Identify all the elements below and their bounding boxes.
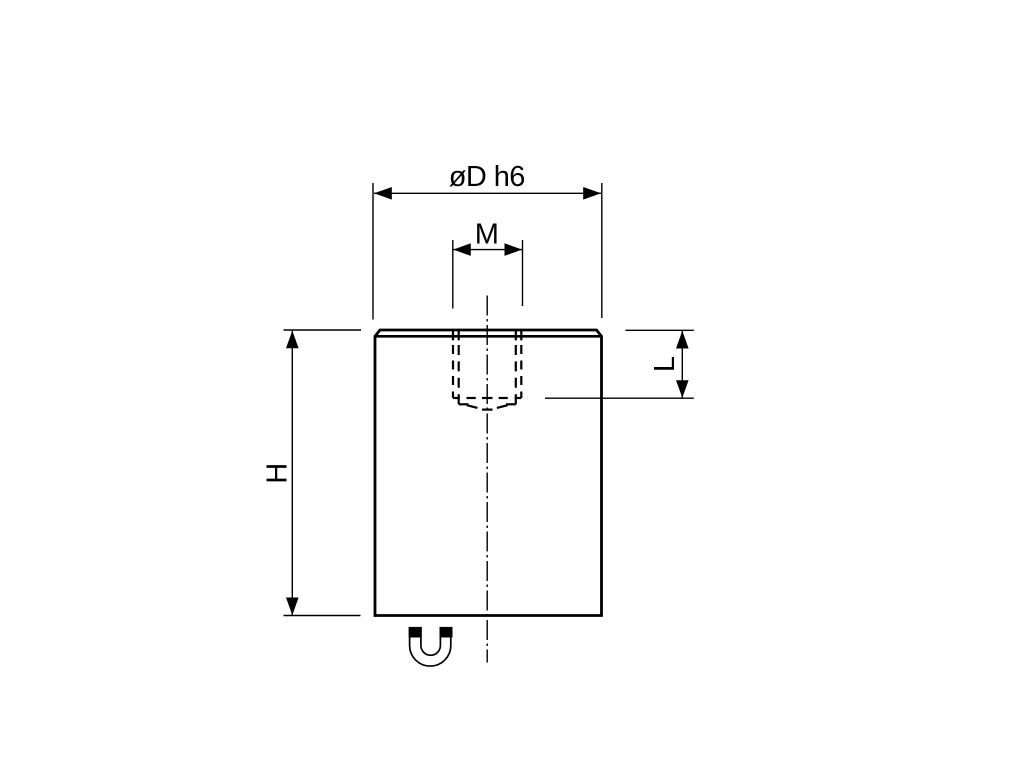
drill minor diameter hidden lines (dashed) [459,345,516,404]
vertical center line (dash-dot) [486,296,488,663]
svg-text:L: L [649,356,681,372]
dimension oD h6: left extension line [372,183,374,320]
dimension H: dimension line [291,331,293,616]
dimension H: bottom extension line [284,615,361,617]
svg-text:øD h6: øD h6 [449,161,525,193]
dimension oD h6: dimension line [374,192,601,194]
dimension H: top arrowhead [286,331,299,349]
dimension L: leader line from thread bottom [545,397,694,399]
horseshoe magnet symbol: left pole (filled) [409,627,422,638]
horseshoe magnet symbol: inner outline [421,627,441,655]
dimension L: bottom arrowhead [676,380,689,398]
horseshoe magnet symbol: outer outline [410,627,451,666]
dimension oD h6: right extension line [601,183,603,318]
dimension M: right arrowhead [505,243,523,256]
dimension L: top arrowhead [676,331,689,349]
dimension L: dimension line [681,331,683,398]
dimension M: dimension line [453,249,522,251]
horseshoe magnet symbol: right pole (filled) [440,627,453,638]
dimension M: right extension line [522,240,524,306]
drill cone bottom hidden lines [459,404,516,409]
dimension H: top extension line [284,329,362,331]
top face lower edge line [375,335,602,338]
dimension M: left arrowhead [453,243,471,256]
thread hole visible edge marks at top face [453,331,521,341]
dimension M: left extension line [452,240,454,309]
dimension H: bottom arrowhead [286,598,299,616]
thread major diameter hidden lines (dashed) [453,345,521,398]
dimension oD h6: left arrowhead [374,187,392,200]
thread bottom hidden line [453,397,521,399]
dimension L: top extension line [625,329,693,331]
pot magnet body outline with chamfered top corners [375,330,602,616]
dimension oD h6: right arrowhead [583,187,601,200]
svg-text:H: H [262,463,294,484]
svg-text:M: M [475,219,499,251]
